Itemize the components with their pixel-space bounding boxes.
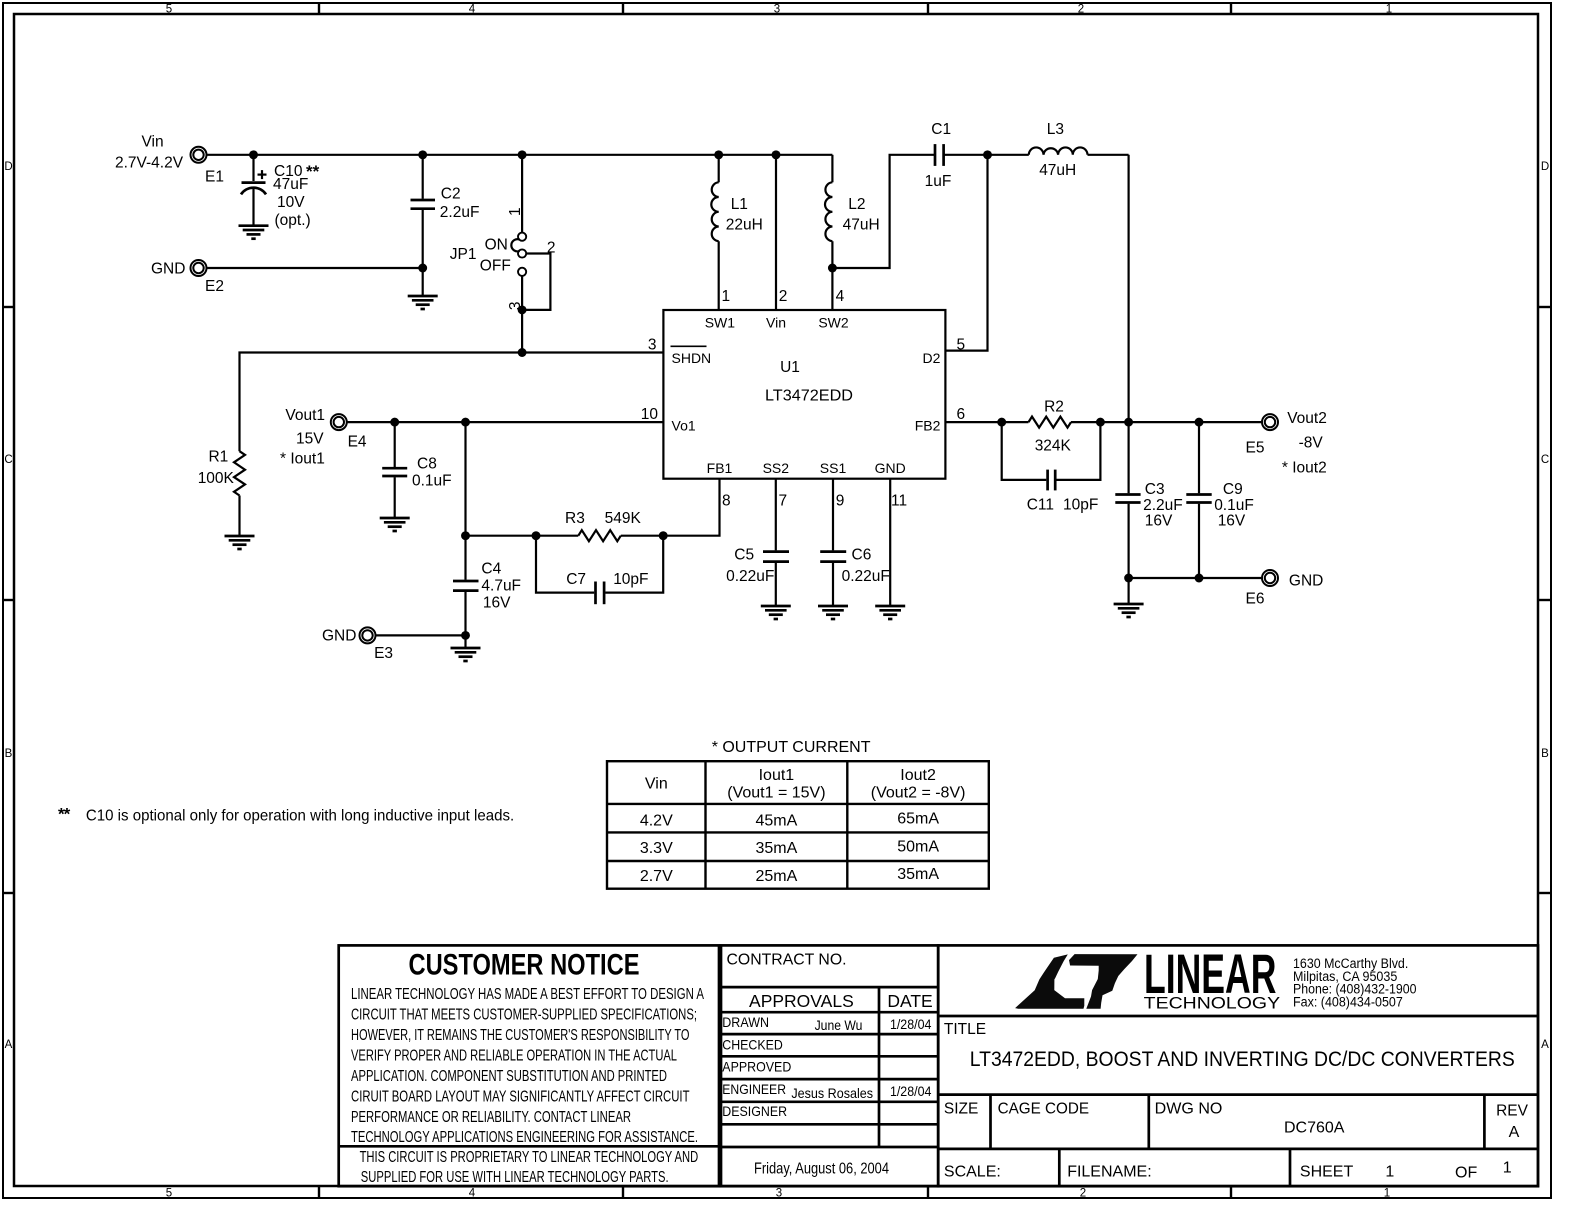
terminal E5 (Vout2): [1246, 410, 1327, 477]
svg-text:TECHNOLOGY: TECHNOLOGY: [1144, 994, 1280, 1012]
svg-text:GND: GND: [151, 260, 185, 277]
ground (C8): [380, 518, 410, 531]
wire SHDN net: [240, 353, 664, 452]
svg-text:B: B: [1541, 748, 1549, 760]
svg-text:PERFORMANCE OR RELIABILITY. C: PERFORMANCE OR RELIABILITY. CONTACT LINE…: [351, 1109, 631, 1126]
svg-text:16V: 16V: [1218, 513, 1246, 530]
svg-text:GND: GND: [322, 628, 356, 645]
wire E3 to C4: [376, 634, 466, 636]
svg-text:4: 4: [836, 288, 845, 305]
node junction C10/VIN: [249, 150, 258, 159]
approvals box: [721, 945, 938, 1186]
wire E2 to C2: [207, 267, 423, 269]
svg-text:A: A: [1541, 1039, 1549, 1051]
svg-text:APPROVED: APPROVED: [722, 1059, 791, 1075]
resistor R2 324K: [1029, 399, 1072, 455]
svg-text:DWG NO: DWG NO: [1155, 1101, 1223, 1118]
node junction R2 left: [997, 418, 1006, 427]
svg-text:D2: D2: [922, 350, 940, 366]
svg-text:THIS CIRCUIT IS PROPRIETARY TO: THIS CIRCUIT IS PROPRIETARY TO LINEAR TE…: [360, 1149, 699, 1166]
node junction C2/VIN: [418, 150, 427, 159]
svg-text:4: 4: [469, 4, 476, 16]
svg-text:10: 10: [641, 406, 659, 423]
svg-text:CHECKED: CHECKED: [722, 1036, 783, 1052]
svg-text:SS2: SS2: [763, 460, 790, 476]
wire Vin pin2: [775, 155, 777, 310]
svg-text:9: 9: [836, 493, 845, 510]
node junction C7 left: [532, 531, 541, 540]
svg-text:1/28/04: 1/28/04: [890, 1016, 932, 1032]
capacitor C2: [411, 186, 480, 296]
svg-text:E4: E4: [348, 434, 367, 451]
svg-text:100K: 100K: [198, 470, 235, 487]
svg-text:GND: GND: [875, 460, 906, 476]
node junction C8/Vo1: [390, 418, 399, 427]
svg-text:LT3472EDD, BOOST AND INVERTING: LT3472EDD, BOOST AND INVERTING DC/DC CON…: [970, 1047, 1515, 1071]
capacitor C9 0.1uF: [1186, 422, 1254, 578]
svg-text:HOWEVER, IT REMAINS THE CUSTOM: HOWEVER, IT REMAINS THE CUSTOMER'S RESPO…: [351, 1027, 690, 1044]
svg-text:45mA: 45mA: [756, 812, 798, 829]
svg-text:(Vout1 = 15V): (Vout1 = 15V): [727, 785, 825, 802]
svg-text:47uH: 47uH: [843, 217, 880, 234]
resistor R3 549K: [565, 510, 641, 541]
wire C2 branch: [422, 155, 424, 199]
svg-text:L3: L3: [1047, 121, 1064, 138]
proprietary note: [360, 1149, 699, 1186]
svg-text:C8: C8: [417, 456, 437, 473]
svg-text:C: C: [4, 454, 12, 466]
node junction L3/FB2 rail: [1124, 418, 1133, 427]
svg-text:SIZE: SIZE: [944, 1101, 978, 1118]
svg-text:2.7V-4.2V: 2.7V-4.2V: [115, 154, 184, 171]
TITLEBLOCK: [339, 942, 1538, 1186]
svg-text:U1: U1: [780, 359, 800, 376]
wire FB1 pin: [663, 479, 719, 536]
svg-text:324K: 324K: [1035, 438, 1072, 455]
svg-text:Vin: Vin: [141, 134, 163, 151]
svg-text:10pF: 10pF: [613, 571, 648, 588]
svg-text:Vo1: Vo1: [672, 418, 696, 434]
svg-text:1: 1: [1386, 4, 1392, 16]
company address: [1293, 956, 1417, 1010]
svg-text:Friday, August 06, 2004: Friday, August 06, 2004: [754, 1161, 889, 1178]
svg-text:Iout2: Iout2: [900, 767, 936, 784]
capacitor C10 (polarized, optional): [241, 162, 320, 229]
svg-text:35mA: 35mA: [756, 840, 798, 857]
terminal E3 (GND): [322, 627, 393, 662]
svg-text:2.7V: 2.7V: [640, 868, 673, 885]
svg-text:DATE: DATE: [887, 991, 932, 1011]
svg-text:1uF: 1uF: [925, 173, 952, 190]
svg-text:16V: 16V: [483, 594, 511, 611]
svg-text:LINEAR TECHNOLOGY HAS MADE A B: LINEAR TECHNOLOGY HAS MADE A BEST EFFORT…: [351, 986, 704, 1003]
svg-text:-8V: -8V: [1299, 435, 1324, 452]
svg-text:8: 8: [722, 493, 731, 510]
terminal E1 (Vin input): [115, 134, 224, 186]
inductor L3 47uH: [1029, 121, 1129, 179]
node junction R2 right: [1096, 418, 1105, 427]
svg-text:R1: R1: [208, 449, 228, 466]
node junction C9/GND rail: [1195, 574, 1204, 583]
customer notice paragraph: [351, 986, 704, 1146]
svg-text:* Iout2: * Iout2: [1282, 460, 1327, 477]
svg-text:D: D: [4, 161, 12, 173]
svg-text:ON: ON: [485, 237, 508, 254]
terminal E4 (Vout1): [280, 407, 367, 467]
svg-text:SW2: SW2: [818, 315, 849, 331]
svg-text:TECHNOLOGY APPLICATIONS ENGINE: TECHNOLOGY APPLICATIONS ENGINEERING FOR …: [351, 1129, 698, 1146]
ground (C6): [818, 606, 848, 619]
ground (output GND): [1114, 604, 1144, 617]
ground (C5): [761, 606, 791, 619]
node junction C2/E2: [418, 264, 427, 273]
svg-text:FB1: FB1: [707, 460, 733, 476]
svg-text:1: 1: [1385, 1163, 1394, 1180]
wire L2 bottom to C1: [832, 155, 935, 268]
terminal E2 (GND): [151, 260, 224, 295]
node junction C3/GND rail: [1124, 574, 1133, 583]
svg-text:35mA: 35mA: [897, 866, 939, 883]
svg-text:2: 2: [779, 288, 788, 305]
svg-text:3: 3: [776, 1188, 782, 1200]
wire C4 branch: [464, 422, 466, 580]
svg-text:FB2: FB2: [915, 418, 941, 434]
svg-text:LT3472EDD: LT3472EDD: [765, 388, 853, 405]
svg-text:SHEET: SHEET: [1300, 1163, 1354, 1180]
svg-text:0.1uF: 0.1uF: [1214, 497, 1254, 514]
svg-text:Vin: Vin: [766, 315, 786, 331]
svg-text:DC760A: DC760A: [1284, 1120, 1345, 1137]
svg-text:C11: C11: [1027, 497, 1054, 514]
inductor L1 22uH: [711, 155, 763, 310]
svg-text:4.7uF: 4.7uF: [481, 578, 521, 595]
svg-text:A: A: [5, 1039, 13, 1051]
wire R3 rail: [466, 535, 579, 537]
svg-text:GND: GND: [1289, 573, 1323, 590]
capacitor C5 0.22uF: [726, 479, 789, 606]
wire Vo1 rail: [347, 421, 664, 423]
svg-text:6: 6: [957, 406, 966, 423]
svg-text:REV: REV: [1496, 1103, 1529, 1120]
Linear Technology logo (LT mark): [1015, 954, 1137, 1009]
svg-text:11: 11: [891, 493, 907, 510]
wire GND rail (output): [1129, 577, 1262, 579]
svg-text:2.2uF: 2.2uF: [1143, 497, 1183, 514]
svg-text:1: 1: [507, 207, 524, 216]
svg-text:DRAWN: DRAWN: [722, 1014, 769, 1030]
capacitor C1 1uF: [925, 121, 1029, 190]
svg-text:CIRUIT BOARD LAYOUT MAY SIGNIF: CIRUIT BOARD LAYOUT MAY SIGNIFICANTLY AF…: [351, 1089, 690, 1106]
svg-text:SHDN: SHDN: [672, 350, 712, 366]
svg-text:VERIFY PROPER AND RELIABLE OPE: VERIFY PROPER AND RELIABLE OPERATION IN …: [351, 1048, 677, 1065]
svg-text:Vout1: Vout1: [285, 407, 325, 424]
svg-text:E3: E3: [374, 645, 393, 662]
svg-text:R2: R2: [1044, 399, 1064, 416]
node junction JP1 pin2/pin3: [518, 305, 527, 314]
svg-text:10V: 10V: [277, 194, 305, 211]
inductor L2 47uH: [825, 155, 880, 310]
svg-text:47uH: 47uH: [1039, 162, 1076, 179]
svg-text:B: B: [5, 748, 13, 760]
node junction C4/Vo1: [461, 418, 470, 427]
note: C10 optional: [58, 805, 514, 825]
svg-text:1: 1: [1503, 1160, 1512, 1177]
svg-text:C: C: [1541, 454, 1549, 466]
svg-text:OF: OF: [1455, 1165, 1477, 1182]
svg-text:C5: C5: [734, 547, 754, 564]
ground (C4/E3): [451, 648, 481, 661]
node junction JP1/SHDN: [518, 348, 527, 357]
svg-text:C3: C3: [1145, 481, 1165, 498]
svg-text:4.2V: 4.2V: [640, 812, 673, 829]
svg-text:7: 7: [779, 493, 788, 510]
svg-text:(opt.): (opt.): [275, 212, 311, 229]
node junction L2/SW2: [828, 264, 837, 273]
terminal E6 (GND): [1246, 570, 1324, 608]
node junction C4/E3: [461, 631, 470, 640]
op-amp U1 LT3472EDD (IC body): [663, 310, 945, 479]
svg-text:549K: 549K: [605, 510, 642, 527]
ground (U1 GND): [875, 606, 905, 619]
wire D2 pin 5: [945, 155, 987, 351]
svg-text:D: D: [1541, 161, 1549, 173]
capacitor C7 10pF: [536, 536, 663, 605]
node junction C1/D2: [983, 150, 992, 159]
svg-text:Vin: Vin: [645, 776, 668, 793]
wire C10 branch: [252, 155, 254, 181]
svg-text:L1: L1: [731, 196, 748, 213]
node junction Vin pin2: [772, 150, 781, 159]
svg-text:0.1uF: 0.1uF: [412, 473, 452, 490]
svg-text:FILENAME:: FILENAME:: [1067, 1163, 1151, 1180]
svg-text:DESIGNER: DESIGNER: [722, 1103, 787, 1119]
svg-text:1/28/04: 1/28/04: [890, 1083, 932, 1099]
wire FB2 rail: [945, 421, 1001, 423]
svg-text:E5: E5: [1246, 440, 1265, 457]
svg-text:CIRCUIT THAT MEETS CUSTOMER-SU: CIRCUIT THAT MEETS CUSTOMER-SUPPLIED SPE…: [351, 1007, 697, 1024]
svg-text:4: 4: [469, 1188, 476, 1200]
svg-text:SW1: SW1: [705, 315, 736, 331]
svg-text:C6: C6: [852, 547, 872, 564]
svg-text:C2: C2: [441, 186, 461, 203]
svg-text:CAGE CODE: CAGE CODE: [998, 1101, 1090, 1118]
svg-text:15V: 15V: [296, 431, 324, 448]
svg-text:* OUTPUT CURRENT: * OUTPUT CURRENT: [712, 739, 871, 756]
svg-text:16V: 16V: [1145, 513, 1173, 530]
svg-text:TITLE: TITLE: [944, 1021, 986, 1038]
svg-text:50mA: 50mA: [897, 839, 939, 856]
svg-text:C10 is optional only for opera: C10 is optional only for operation with …: [86, 808, 514, 825]
node junction L1/VIN: [714, 150, 723, 159]
capacitor C8 0.1uF: [382, 422, 451, 518]
ground (C10): [239, 226, 269, 239]
svg-text:Jesus Rosales: Jesus Rosales: [791, 1085, 873, 1101]
resistor R1 100K: [198, 449, 245, 537]
svg-text:2: 2: [1080, 1188, 1086, 1200]
svg-text:SUPPLIED FOR USE WITH LINEAR T: SUPPLIED FOR USE WITH LINEAR TECHNOLOGY …: [361, 1169, 669, 1186]
node junction C9/FB2 rail: [1195, 418, 1204, 427]
svg-text:5: 5: [166, 1188, 172, 1200]
output current table grid: [607, 761, 989, 889]
svg-text:E2: E2: [205, 278, 224, 295]
svg-text:OFF: OFF: [480, 258, 511, 275]
svg-text:C4: C4: [481, 561, 501, 578]
svg-text:2: 2: [1078, 4, 1084, 16]
svg-text:3.3V: 3.3V: [640, 840, 673, 857]
svg-text:5: 5: [166, 4, 172, 16]
svg-text:APPROVALS: APPROVALS: [749, 991, 854, 1011]
svg-text:A: A: [1509, 1124, 1520, 1141]
ground (C2): [408, 296, 438, 309]
svg-text:E6: E6: [1246, 591, 1265, 608]
wire L3 to Vout2 rail: [1127, 155, 1129, 422]
svg-text:ENGINEER: ENGINEER: [722, 1081, 786, 1097]
svg-text:65mA: 65mA: [897, 811, 939, 828]
node junction C7 right / FB1: [659, 531, 668, 540]
svg-text:CUSTOMER NOTICE: CUSTOMER NOTICE: [409, 949, 640, 982]
company / title box: [938, 945, 1538, 1186]
svg-text:R3: R3: [565, 510, 585, 527]
svg-text:Fax: (408)434-0507: Fax: (408)434-0507: [1293, 995, 1403, 1010]
svg-text:CONTRACT NO.: CONTRACT NO.: [727, 951, 847, 968]
svg-text:1: 1: [1384, 1188, 1390, 1200]
svg-text:5: 5: [957, 337, 966, 354]
svg-text:C1: C1: [931, 121, 951, 138]
svg-text:**: **: [58, 805, 71, 824]
svg-text:SCALE:: SCALE:: [944, 1163, 1001, 1180]
svg-text:Iout1: Iout1: [759, 767, 795, 784]
svg-text:APPLICATION. COMPONENT SUBSTI: APPLICATION. COMPONENT SUBSTITUTION AND …: [351, 1068, 667, 1085]
wire GND pin 11: [889, 479, 891, 606]
wire VIN rail: [207, 154, 833, 156]
svg-text:Vout2: Vout2: [1287, 410, 1327, 427]
svg-text:0.22uF: 0.22uF: [842, 568, 890, 585]
customer notice box: [339, 945, 719, 1186]
capacitor C11 10pF: [1002, 422, 1101, 513]
node junction C4/R3 rail: [461, 531, 470, 540]
svg-text:3: 3: [774, 4, 780, 16]
svg-text:2: 2: [547, 239, 556, 256]
svg-text:* Iout1: * Iout1: [280, 451, 325, 468]
svg-text:C9: C9: [1223, 481, 1243, 498]
capacitor C4 4.7uF: [453, 561, 521, 649]
svg-text:3: 3: [648, 337, 657, 354]
svg-text:2.2uF: 2.2uF: [440, 204, 480, 221]
capacitor C6 0.22uF: [820, 479, 890, 606]
svg-text:25mA: 25mA: [756, 868, 798, 885]
svg-text:10pF: 10pF: [1063, 497, 1098, 514]
svg-text:0.22uF: 0.22uF: [726, 568, 774, 585]
svg-text:1: 1: [722, 288, 731, 305]
svg-text:22uH: 22uH: [726, 217, 763, 234]
TABLE: [58, 739, 989, 889]
node junction JP1/VIN: [518, 150, 527, 159]
jumper JP1: [450, 155, 556, 353]
svg-text:E1: E1: [205, 168, 224, 185]
svg-text:47uF: 47uF: [273, 176, 308, 193]
svg-text:June Wu: June Wu: [815, 1017, 863, 1033]
capacitor C3 2.2uF: [1115, 422, 1182, 604]
svg-text:SS1: SS1: [820, 460, 847, 476]
svg-text:C7: C7: [566, 571, 586, 588]
ground (R1): [225, 536, 255, 549]
svg-text:JP1: JP1: [450, 246, 477, 263]
svg-text:(Vout2 = -8V): (Vout2 = -8V): [871, 785, 966, 802]
svg-text:L2: L2: [848, 196, 865, 213]
